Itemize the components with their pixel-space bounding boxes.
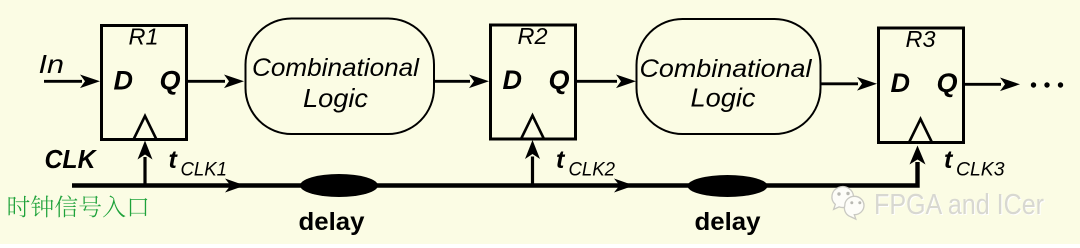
svg-text:R1: R1 xyxy=(129,24,159,50)
svg-text:R2: R2 xyxy=(518,23,548,49)
svg-text:CLK: CLK xyxy=(45,146,98,174)
svg-text:Logic: Logic xyxy=(691,83,756,113)
svg-text:Combinational: Combinational xyxy=(252,54,420,82)
svg-text:CLK3: CLK3 xyxy=(956,160,1005,181)
svg-text:CLK2: CLK2 xyxy=(569,160,616,181)
svg-text:Q: Q xyxy=(160,66,181,96)
svg-text:In: In xyxy=(39,49,65,79)
svg-text:delay: delay xyxy=(695,208,761,236)
svg-text:FPGA and ICer: FPGA and ICer xyxy=(874,189,1044,221)
svg-text:D: D xyxy=(114,66,134,96)
svg-text:CLK1: CLK1 xyxy=(181,160,228,181)
svg-text:Q: Q xyxy=(549,65,570,95)
svg-text:Combinational: Combinational xyxy=(640,55,814,83)
svg-text:D: D xyxy=(891,68,911,98)
svg-text:delay: delay xyxy=(299,208,365,236)
svg-text:Logic: Logic xyxy=(303,83,368,113)
svg-text:Q: Q xyxy=(937,68,958,98)
svg-text:R3: R3 xyxy=(906,26,936,52)
svg-text:D: D xyxy=(503,65,523,95)
